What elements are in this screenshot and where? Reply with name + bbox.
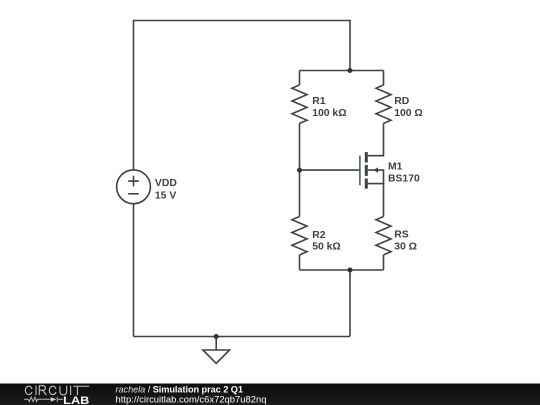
svg-text:R2: R2: [312, 230, 326, 241]
svg-text:100 Ω: 100 Ω: [394, 108, 423, 119]
svg-text:M1: M1: [388, 161, 403, 172]
svg-text:BS170: BS170: [388, 174, 420, 185]
svg-text:50 kΩ: 50 kΩ: [312, 241, 341, 252]
svg-text:http://circuitlab.com/c6x72qb7: http://circuitlab.com/c6x72qb7u82nq: [116, 394, 267, 405]
svg-text:100 kΩ: 100 kΩ: [312, 108, 346, 119]
svg-text:LAB: LAB: [63, 395, 89, 405]
svg-text:RD: RD: [394, 96, 410, 107]
svg-text:R1: R1: [312, 96, 326, 107]
svg-text:VDD: VDD: [155, 178, 177, 189]
svg-text:RS: RS: [394, 230, 409, 241]
svg-text:15 V: 15 V: [155, 190, 176, 201]
svg-text:30 Ω: 30 Ω: [394, 241, 417, 252]
